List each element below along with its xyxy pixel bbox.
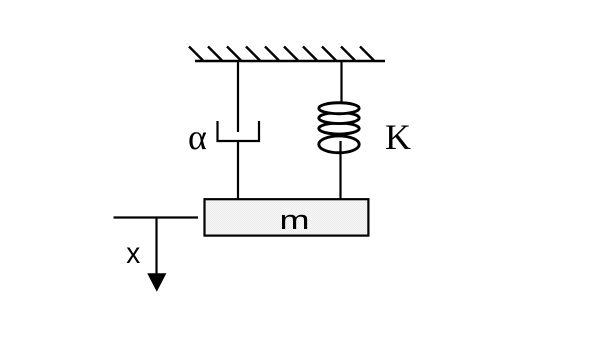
wire: damper rod from ceiling [237, 61, 239, 132]
spring K coil turn 2 [319, 113, 359, 124]
spring K coil turn 1 (top) [319, 103, 359, 114]
ceiling line [195, 60, 385, 63]
ceiling hatching [189, 47, 374, 61]
reference line [114, 216, 199, 218]
svg-text:α: α [188, 117, 207, 157]
svg-text:K: K [385, 117, 411, 157]
wire: damper to mass [237, 141, 239, 199]
svg-text:m: m [280, 204, 310, 235]
wire: spring to mass [339, 141, 341, 199]
x axis arrow shaft [155, 218, 157, 276]
mass m block [205, 199, 369, 235]
x axis arrow head [147, 273, 166, 292]
spring K coil turn 4 (bottom) [319, 136, 359, 153]
wire: spring rod from ceiling [340, 61, 342, 108]
svg-text:x: x [126, 237, 140, 270]
damper cup [218, 121, 260, 141]
spring K coil turn 3 [319, 123, 359, 134]
